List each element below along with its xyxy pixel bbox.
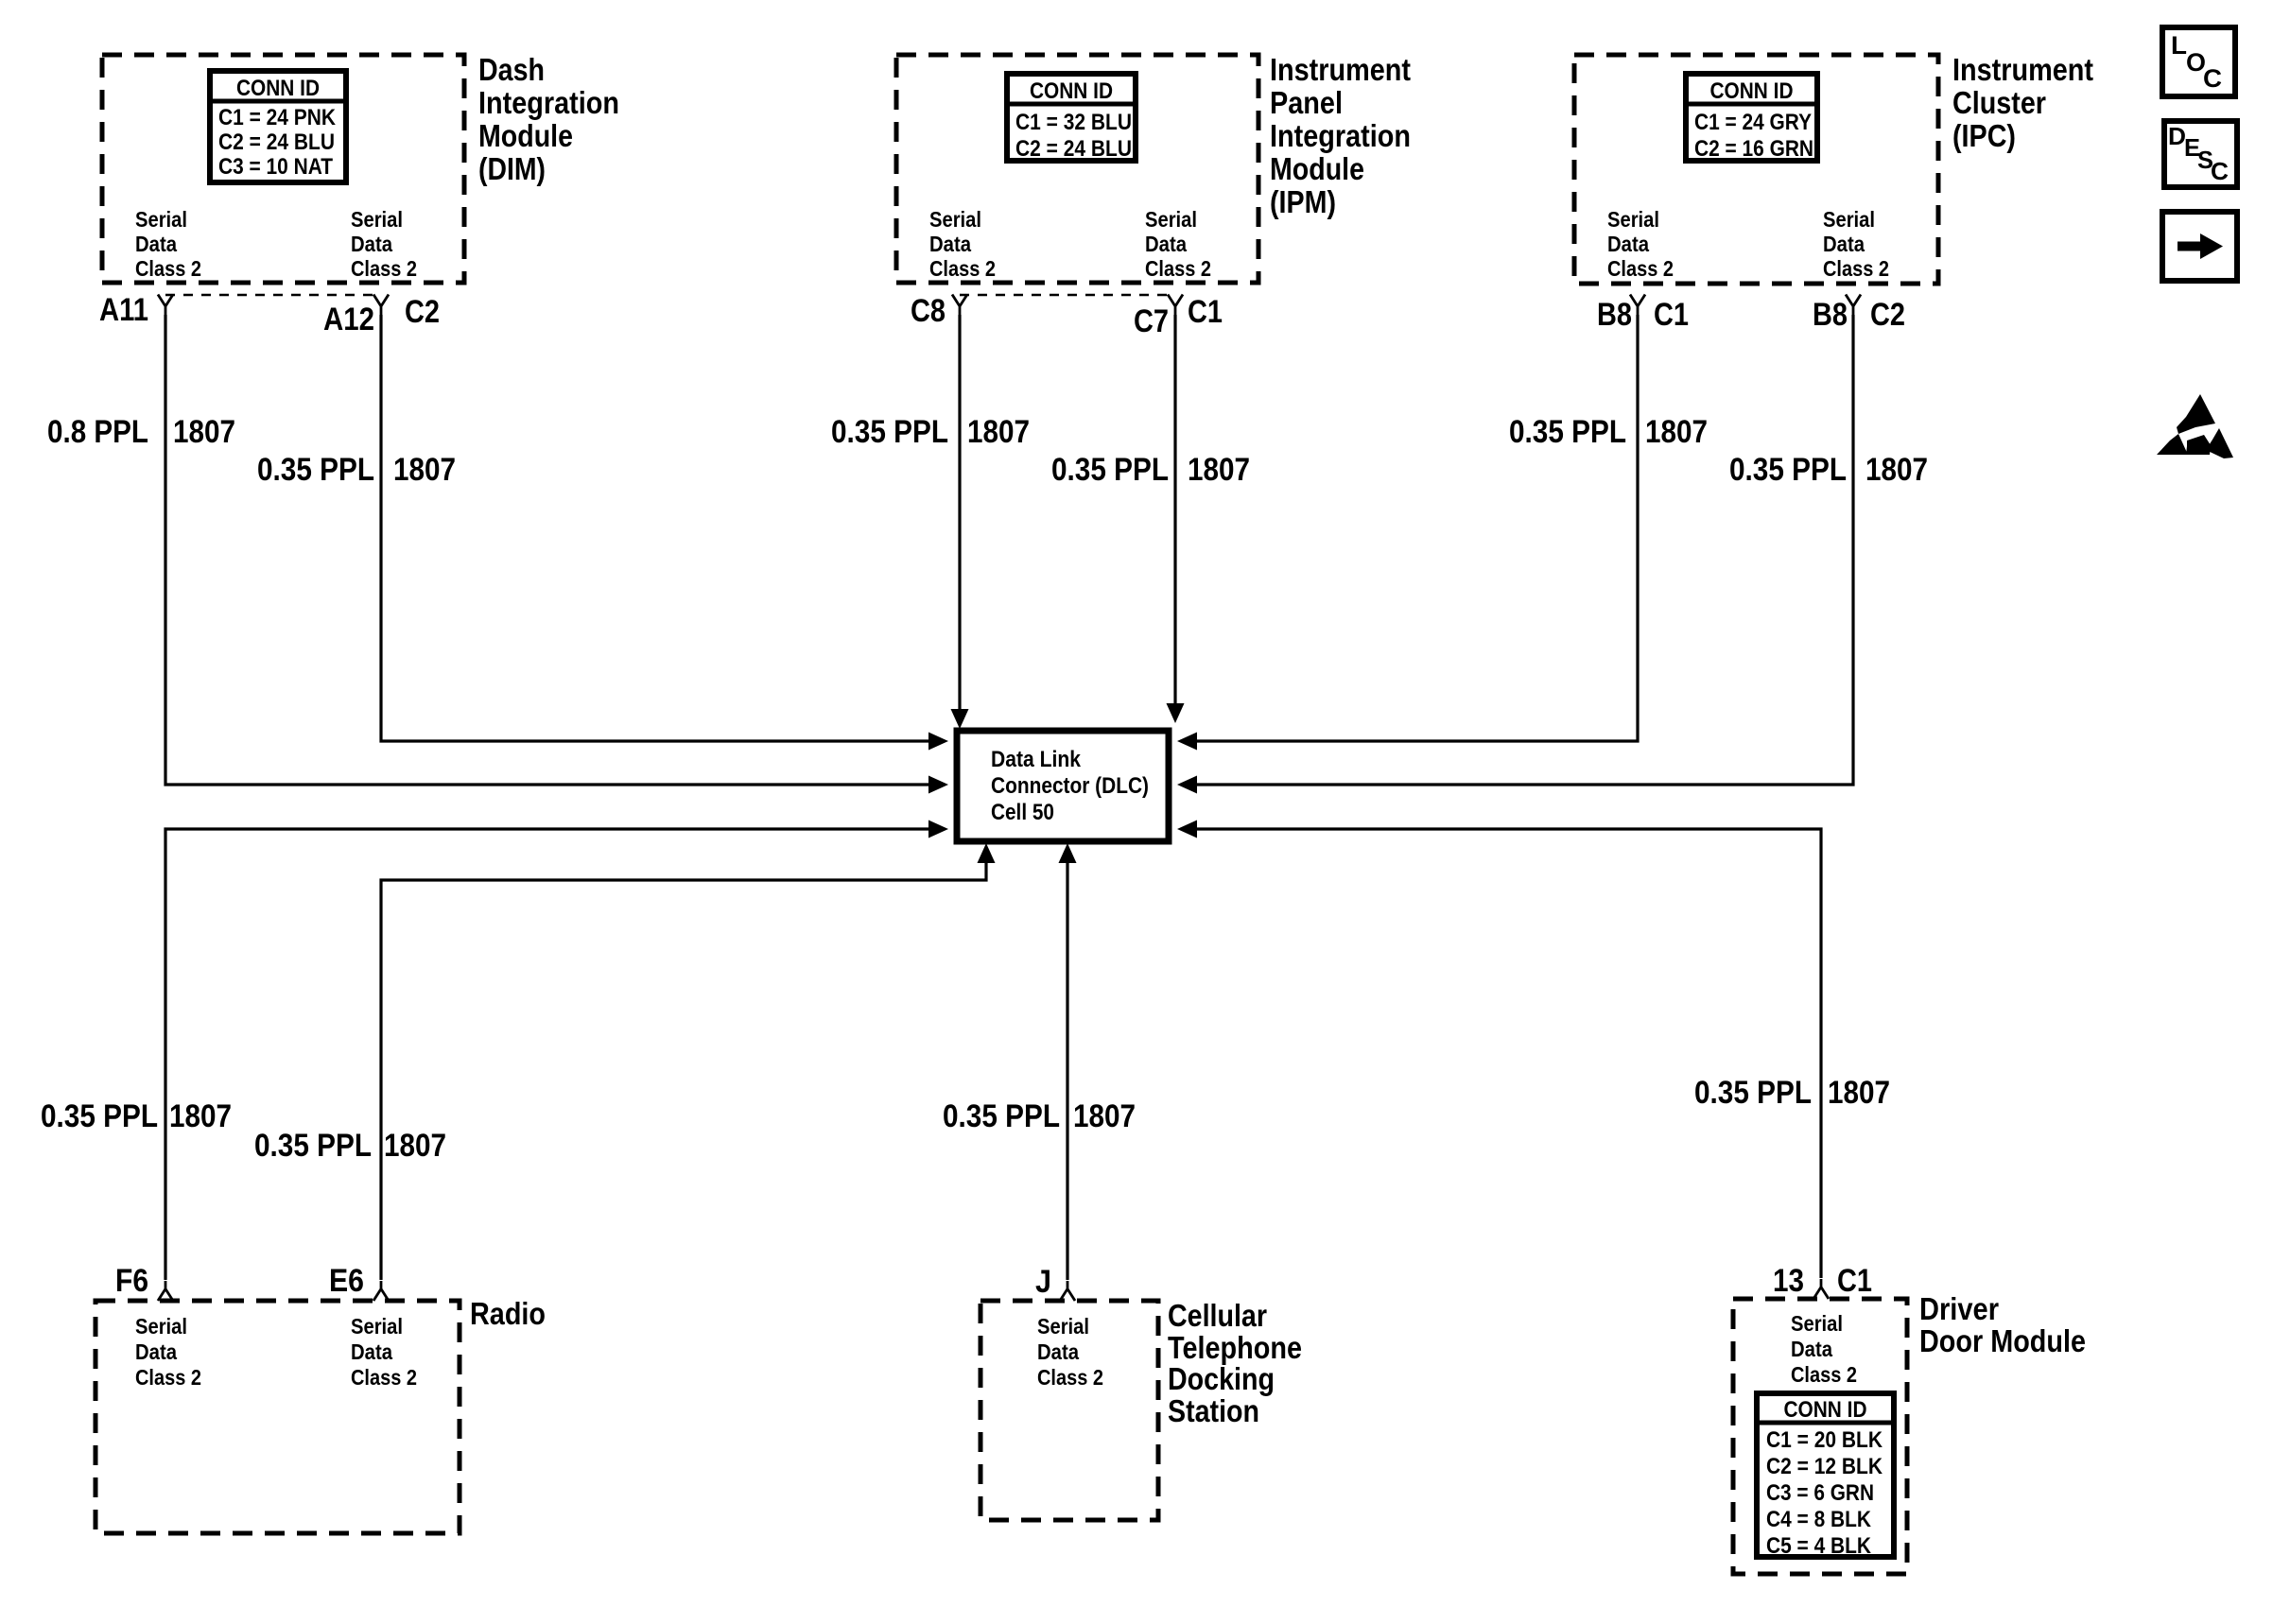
- module DIM box: [102, 55, 464, 283]
- svg-text:Station: Station: [1168, 1393, 1259, 1428]
- svg-text:1807: 1807: [169, 1098, 232, 1134]
- LOC legend box: [2162, 27, 2235, 96]
- svg-text:Class 2: Class 2: [351, 1365, 417, 1390]
- wire A11 to DLC: [165, 315, 930, 785]
- DIM CONN ID table: [210, 71, 346, 182]
- svg-text:C2 = 16 GRN: C2 = 16 GRN: [1694, 136, 1813, 162]
- svg-text:B8: B8: [1813, 297, 1848, 333]
- svg-text:C1 = 20 BLK: C1 = 20 BLK: [1766, 1427, 1883, 1453]
- IPM CONN ID table: [1007, 74, 1136, 161]
- svg-text:0.35 PPL: 0.35 PPL: [943, 1098, 1060, 1134]
- svg-text:Driver: Driver: [1919, 1291, 1999, 1326]
- svg-text:Serial: Serial: [1145, 207, 1197, 232]
- svg-text:Radio: Radio: [470, 1296, 546, 1331]
- IPM connector C1 dashed line: [960, 294, 1175, 297]
- IPC CONN ID table: [1686, 74, 1817, 161]
- svg-text:C1 = 24 PNK: C1 = 24 PNK: [218, 105, 337, 130]
- module Cellular Telephone Docking Station box: [980, 1301, 1158, 1520]
- svg-text:Dash: Dash: [478, 52, 545, 87]
- svg-text:A12: A12: [323, 302, 374, 337]
- svg-text:B8: B8: [1597, 297, 1632, 333]
- svg-text:0.35 PPL: 0.35 PPL: [1694, 1075, 1812, 1111]
- DIM connector C2 dashed line: [165, 294, 381, 297]
- svg-text:1807: 1807: [967, 414, 1030, 450]
- svg-text:C1: C1: [1837, 1263, 1872, 1299]
- svg-text:C4 = 8 BLK: C4 = 8 BLK: [1766, 1507, 1872, 1532]
- pin B8 C2 connector Y: [1846, 295, 1861, 316]
- wire Radio F6 to DLC: [165, 829, 930, 1280]
- svg-text:1807: 1807: [384, 1128, 446, 1164]
- svg-text:C1: C1: [1188, 294, 1223, 330]
- pin 13 connector Y: [1813, 1279, 1829, 1299]
- pin C7 connector Y: [1168, 295, 1183, 316]
- svg-text:Serial: Serial: [1791, 1311, 1843, 1336]
- svg-text:0.35 PPL: 0.35 PPL: [254, 1128, 372, 1164]
- svg-text:C: C: [2211, 157, 2229, 185]
- svg-text:0.35 PPL: 0.35 PPL: [831, 414, 948, 450]
- wire C8 to DLC: [958, 315, 961, 711]
- svg-text:Connector (DLC): Connector (DLC): [991, 773, 1149, 799]
- wire Radio E6 to DLC: [381, 861, 986, 1280]
- svg-text:J: J: [1035, 1264, 1051, 1300]
- svg-text:C1 = 32 BLU: C1 = 32 BLU: [1015, 110, 1132, 135]
- svg-text:1807: 1807: [173, 414, 235, 450]
- svg-text:Class 2: Class 2: [1607, 256, 1674, 281]
- svg-text:C2 = 24 BLU: C2 = 24 BLU: [1015, 136, 1132, 162]
- svg-text:Data: Data: [1823, 232, 1865, 256]
- module IPC box: [1574, 55, 1938, 284]
- svg-text:Data: Data: [1145, 232, 1187, 256]
- DDM module name label: [1919, 1291, 2086, 1358]
- svg-text:1807: 1807: [1073, 1098, 1136, 1134]
- svg-text:Module: Module: [478, 118, 573, 153]
- pin F6 connector Y: [158, 1281, 173, 1301]
- svg-text:1807: 1807: [393, 452, 456, 488]
- svg-text:A11: A11: [99, 292, 148, 328]
- svg-text:0.8 PPL: 0.8 PPL: [47, 414, 148, 450]
- svg-text:0.35 PPL: 0.35 PPL: [1051, 452, 1169, 488]
- svg-text:C1: C1: [1654, 297, 1689, 333]
- svg-text:Serial: Serial: [135, 1314, 187, 1339]
- svg-text:0.35 PPL: 0.35 PPL: [1729, 452, 1847, 488]
- svg-text:C2 = 12 BLK: C2 = 12 BLK: [1766, 1454, 1883, 1479]
- pin E6 connector Y: [373, 1281, 389, 1301]
- svg-text:Class 2: Class 2: [1791, 1362, 1857, 1387]
- svg-text:Class 2: Class 2: [351, 256, 417, 281]
- svg-text:F6: F6: [115, 1263, 148, 1299]
- wire C7 to DLC: [1173, 315, 1176, 705]
- svg-text:CONN ID: CONN ID: [1784, 1397, 1867, 1423]
- svg-text:Data: Data: [135, 1339, 177, 1364]
- svg-text:(IPM): (IPM): [1270, 184, 1336, 219]
- svg-text:Door Module: Door Module: [1919, 1323, 2086, 1358]
- svg-text:Serial: Serial: [351, 207, 403, 232]
- pin C8 connector Y: [952, 295, 967, 316]
- svg-text:Data: Data: [929, 232, 971, 256]
- svg-text:C2 = 24 BLU: C2 = 24 BLU: [218, 130, 335, 155]
- svg-text:Cellular: Cellular: [1168, 1298, 1267, 1333]
- Cellular module name label: [1168, 1298, 1302, 1428]
- svg-text:Serial: Serial: [135, 207, 187, 232]
- svg-text:Data: Data: [1607, 232, 1649, 256]
- svg-text:Class 2: Class 2: [929, 256, 996, 281]
- svg-text:L: L: [2171, 31, 2187, 60]
- svg-text:(DIM): (DIM): [478, 151, 546, 186]
- svg-text:Serial: Serial: [929, 207, 981, 232]
- svg-text:Data: Data: [1791, 1337, 1832, 1361]
- svg-text:Data: Data: [1037, 1339, 1079, 1364]
- DDM CONN ID table: [1757, 1393, 1894, 1557]
- wire IPC B8 C1 to DLC: [1195, 315, 1638, 741]
- svg-text:(IPC): (IPC): [1952, 118, 2016, 153]
- module IPM box: [896, 55, 1258, 283]
- svg-text:C2: C2: [1870, 297, 1905, 333]
- svg-text:CONN ID: CONN ID: [1030, 78, 1113, 104]
- svg-text:Serial: Serial: [1823, 207, 1875, 232]
- svg-text:Integration: Integration: [1270, 118, 1411, 153]
- svg-text:Telephone: Telephone: [1168, 1330, 1302, 1365]
- svg-text:Serial: Serial: [1607, 207, 1659, 232]
- svg-text:Integration: Integration: [478, 85, 619, 120]
- module Radio box: [95, 1301, 460, 1533]
- svg-text:Data: Data: [351, 1339, 392, 1364]
- ESD sensitive device symbol: [2157, 394, 2233, 458]
- svg-text:Instrument: Instrument: [1952, 52, 2093, 87]
- svg-text:Docking: Docking: [1168, 1361, 1275, 1396]
- svg-text:Class 2: Class 2: [135, 1365, 201, 1390]
- svg-text:C5 = 4 BLK: C5 = 4 BLK: [1766, 1533, 1872, 1559]
- svg-text:C8: C8: [911, 293, 946, 329]
- module Driver Door Module box: [1733, 1299, 1907, 1574]
- svg-text:13: 13: [1773, 1263, 1804, 1299]
- DESC legend box: [2164, 121, 2237, 187]
- IPC module name label: [1952, 52, 2093, 153]
- svg-text:Data: Data: [135, 232, 177, 256]
- svg-text:Class 2: Class 2: [1037, 1365, 1103, 1390]
- DIM module name label: [478, 52, 619, 186]
- svg-text:0.35 PPL: 0.35 PPL: [41, 1098, 158, 1134]
- svg-text:C7: C7: [1134, 303, 1169, 339]
- svg-text:C: C: [2203, 64, 2222, 93]
- svg-text:C1 = 24 GRY: C1 = 24 GRY: [1694, 110, 1812, 135]
- pin A11 connector Y: [158, 295, 173, 316]
- wire DDM 13 C1 to DLC: [1195, 829, 1821, 1278]
- pin B8 C1 connector Y: [1630, 295, 1645, 316]
- wire Cellular J to DLC: [1066, 861, 1068, 1280]
- svg-text:1807: 1807: [1188, 452, 1250, 488]
- wire A12 to DLC: [381, 315, 930, 741]
- svg-text:1807: 1807: [1828, 1075, 1890, 1111]
- svg-text:Instrument: Instrument: [1270, 52, 1411, 87]
- svg-text:Cell 50: Cell 50: [991, 800, 1054, 825]
- svg-text:CONN ID: CONN ID: [1710, 78, 1794, 104]
- svg-text:1807: 1807: [1865, 452, 1928, 488]
- svg-text:1807: 1807: [1645, 414, 1708, 450]
- svg-text:Class 2: Class 2: [135, 256, 201, 281]
- svg-text:C3 = 6 GRN: C3 = 6 GRN: [1766, 1480, 1874, 1506]
- pin A12 connector Y: [373, 295, 389, 316]
- svg-text:Data: Data: [351, 232, 392, 256]
- pin J connector Y: [1060, 1281, 1075, 1301]
- svg-text:Class 2: Class 2: [1145, 256, 1211, 281]
- svg-text:Module: Module: [1270, 151, 1364, 186]
- svg-text:Data Link: Data Link: [991, 747, 1082, 772]
- svg-text:E6: E6: [329, 1263, 364, 1299]
- svg-text:Class 2: Class 2: [1823, 256, 1889, 281]
- svg-text:C2: C2: [405, 294, 440, 330]
- svg-text:Serial: Serial: [1037, 1314, 1089, 1339]
- IPM module name label: [1270, 52, 1411, 219]
- svg-text:Cluster: Cluster: [1952, 85, 2046, 120]
- svg-text:C3 = 10 NAT: C3 = 10 NAT: [218, 154, 333, 180]
- svg-text:Panel: Panel: [1270, 85, 1343, 120]
- forward arrow legend box: [2162, 212, 2237, 281]
- Data Link Connector DLC box: [957, 731, 1169, 841]
- svg-text:Serial: Serial: [351, 1314, 403, 1339]
- svg-text:CONN ID: CONN ID: [236, 76, 320, 101]
- svg-text:0.35 PPL: 0.35 PPL: [1509, 414, 1626, 450]
- svg-text:0.35 PPL: 0.35 PPL: [257, 452, 374, 488]
- wire IPC B8 C2 to DLC: [1195, 315, 1853, 785]
